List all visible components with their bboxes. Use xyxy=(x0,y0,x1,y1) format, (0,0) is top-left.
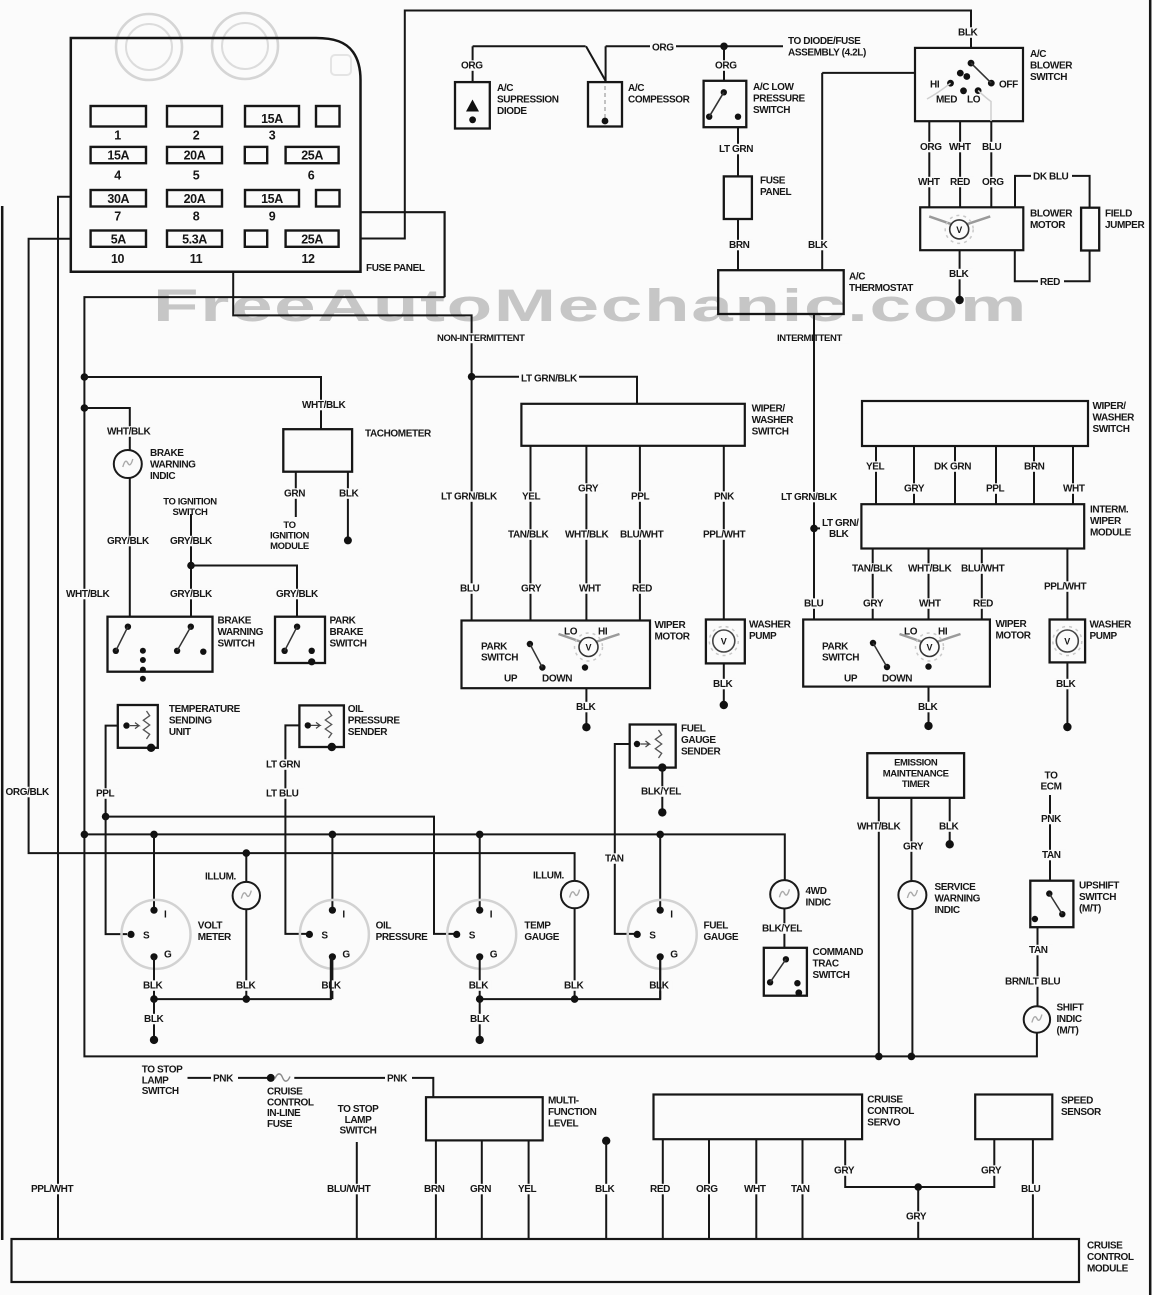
park brake sw contact 3 xyxy=(309,648,315,654)
junction I-bus temp xyxy=(476,831,484,839)
wire TAN servo out xyxy=(802,1139,804,1239)
wire BLU/WHT stop lamp to module xyxy=(356,1142,358,1239)
cruise control servo box xyxy=(654,1095,863,1140)
wire ORG drop to diode xyxy=(472,46,474,82)
svg-text:LT GRN/BLK: LT GRN/BLK xyxy=(781,492,838,503)
svg-text:LO: LO xyxy=(967,95,981,106)
svg-text:CRUISE: CRUISE xyxy=(867,1095,903,1106)
svg-text:WIPER: WIPER xyxy=(655,620,687,631)
svg-text:10: 10 xyxy=(111,252,125,266)
label PPL/WHT (right) xyxy=(1042,581,1087,592)
fuse panel outer box top/right edge xyxy=(361,212,445,297)
svg-text:9: 9 xyxy=(269,210,276,224)
terminal dot right motor BLK xyxy=(924,722,932,730)
svg-text:NON-INTERMITTENT: NON-INTERMITTENT xyxy=(437,333,525,344)
wire YEL/GRY left sw out1 xyxy=(530,446,532,621)
right park sw blade xyxy=(873,643,887,667)
upshift contact 1 xyxy=(1046,890,1052,896)
wiper motor box (left) xyxy=(462,621,651,689)
junction intermittent to module xyxy=(810,525,818,533)
terminal dot right bus xyxy=(476,1036,484,1044)
wire BLK tach out xyxy=(347,472,349,541)
svg-text:5: 5 xyxy=(193,169,200,183)
fuse slot 3 xyxy=(245,106,299,127)
fuse slot 8 xyxy=(286,147,339,163)
label WHT/BLK (left mid) xyxy=(563,529,609,540)
fuse slot 14 xyxy=(167,231,222,247)
svg-text:RED: RED xyxy=(973,599,993,610)
wire right switch to interm module 1 xyxy=(875,446,877,504)
svg-text:SWITCH: SWITCH xyxy=(813,970,850,981)
cruise control module box xyxy=(12,1239,1080,1282)
junction I-bus oil xyxy=(329,831,337,839)
svg-text:V: V xyxy=(721,637,727,647)
svg-text:COMPESSOR: COMPESSOR xyxy=(628,94,691,105)
wire GRY/BLK from ignition switch xyxy=(190,514,192,617)
svg-text:ILLUM.: ILLUM. xyxy=(533,871,565,882)
svg-text:GRY: GRY xyxy=(903,842,924,853)
label GRY (speed sensor) xyxy=(979,1165,1006,1176)
svg-text:OIL: OIL xyxy=(348,704,364,715)
command trac contact 3 xyxy=(794,980,800,986)
wire GRY timer to service lamp xyxy=(910,798,912,881)
temp sender resistor xyxy=(143,711,149,739)
wire GRY/WHT left sw out2 xyxy=(585,446,587,621)
label BRN/LT BLU xyxy=(1003,976,1064,987)
svg-text:YEL: YEL xyxy=(522,492,541,503)
label BRN xyxy=(727,240,753,251)
svg-text:BRAKE: BRAKE xyxy=(218,616,252,627)
wire GRY/BLK indic to brake warning switch xyxy=(129,478,131,617)
svg-text:2: 2 xyxy=(193,129,200,143)
svg-text:PRESSURE: PRESSURE xyxy=(753,93,806,104)
fuse slot 4 xyxy=(316,106,340,127)
svg-text:BLOWER: BLOWER xyxy=(1030,209,1073,220)
svg-text:RED: RED xyxy=(950,177,970,188)
svg-text:TO: TO xyxy=(283,520,295,531)
fuse slot 16 xyxy=(286,231,339,247)
svg-text:PNK: PNK xyxy=(213,1074,234,1085)
label TAN (upshift upper) xyxy=(1040,850,1066,861)
svg-text:PNK: PNK xyxy=(387,1074,408,1085)
svg-text:SWITCH: SWITCH xyxy=(218,638,255,649)
wire WHT/BLK timer to bus xyxy=(878,798,880,1057)
svg-text:MOTOR: MOTOR xyxy=(996,630,1032,641)
wire right switch to interm module 3 xyxy=(954,446,956,504)
fuse slot 7 xyxy=(245,147,267,163)
wire upshift to shift indic xyxy=(1037,927,1039,1006)
svg-text:HI: HI xyxy=(930,80,940,91)
junction non-intermittent branch xyxy=(468,373,476,381)
label RED (left r3) xyxy=(630,583,656,594)
label GRY/BLK (ign leg upper) xyxy=(168,536,214,547)
label GRY (module in) xyxy=(904,1211,931,1222)
label PNK (inline fuse left) xyxy=(211,1073,238,1084)
temperature sending unit box xyxy=(118,705,158,748)
svg-text:LAMP: LAMP xyxy=(142,1075,169,1086)
wire BLK left wiper motor ground xyxy=(585,688,587,727)
label BLK (left motor) xyxy=(574,702,599,713)
wiper washer switch box (right) xyxy=(862,401,1088,446)
svg-text:TAN: TAN xyxy=(1042,850,1061,861)
wire GRN tach out xyxy=(295,472,297,517)
wire RED bottom bracket left xyxy=(1015,250,1038,281)
temp sender arrow xyxy=(130,723,139,729)
svg-text:ORG: ORG xyxy=(461,61,483,72)
svg-text:FUSE: FUSE xyxy=(267,1119,293,1130)
svg-text:TAN: TAN xyxy=(1029,945,1048,956)
terminal dot left pump BLK xyxy=(720,701,728,709)
wire BLU/WHT module out3 xyxy=(981,549,983,620)
label BLU (right wiper motor in) xyxy=(802,598,827,609)
svg-text:BLK: BLK xyxy=(236,981,257,992)
label BLK (timer) xyxy=(937,821,962,832)
wire PPL to temp gauge S xyxy=(106,817,454,934)
svg-text:TACHOMETER: TACHOMETER xyxy=(365,429,432,440)
label WHT (left r3) xyxy=(577,583,605,594)
wire RED bottom bracket right xyxy=(1064,251,1090,282)
svg-text:5A: 5A xyxy=(111,232,127,246)
wire INTERMITTENT feed xyxy=(813,314,815,620)
svg-text:ILLUM.: ILLUM. xyxy=(205,872,237,883)
wire ORG rail right segment xyxy=(606,45,783,47)
svg-text:SWITCH: SWITCH xyxy=(753,105,790,116)
wire GRN multifunction out xyxy=(481,1140,483,1239)
wire right switch to interm module 5 xyxy=(1033,446,1035,504)
svg-text:A/C LOW: A/C LOW xyxy=(753,82,794,93)
wire BLK left washer pump ground xyxy=(723,663,725,705)
label BRN (bottom) xyxy=(422,1184,449,1195)
svg-text:TO STOP: TO STOP xyxy=(338,1104,379,1115)
svg-text:SENDING: SENDING xyxy=(169,715,212,726)
label LT GRN xyxy=(717,144,757,155)
label ORG (sw out 1) xyxy=(918,142,944,153)
wire BRN fuse to thermostat xyxy=(737,219,739,270)
svg-text:A/C: A/C xyxy=(497,83,513,94)
label BLK (right bus dropper) xyxy=(468,1014,493,1025)
svg-text:INDIC: INDIC xyxy=(1057,1014,1082,1025)
svg-text:G: G xyxy=(490,949,498,960)
wire LT GRN low pressure to fuse xyxy=(737,127,739,176)
svg-text:ORG: ORG xyxy=(920,142,942,153)
park brake sw contact 4 xyxy=(308,658,315,665)
washer pump symbol (left) xyxy=(713,630,735,652)
svg-text:IGNITION: IGNITION xyxy=(270,530,310,541)
svg-text:G: G xyxy=(164,949,172,960)
svg-text:BLK: BLK xyxy=(339,489,360,500)
svg-text:IN-LINE: IN-LINE xyxy=(267,1108,301,1119)
wire PPL/WHT from fuse panel to cruise module xyxy=(58,197,71,1239)
svg-text:SUPRESSION: SUPRESSION xyxy=(497,94,559,105)
diode symbol xyxy=(466,100,479,112)
junction WHT/BLK to illumination I-bus xyxy=(81,831,89,839)
svg-text:3: 3 xyxy=(269,129,276,143)
svg-text:LT GRN/BLK: LT GRN/BLK xyxy=(521,374,578,385)
wire PNK segment b xyxy=(294,1078,433,1097)
svg-text:I: I xyxy=(342,909,345,920)
svg-text:GRY: GRY xyxy=(521,584,542,595)
label ORG/BLK xyxy=(4,787,51,798)
wire BLK bus right dropper xyxy=(479,999,481,1040)
svg-text:EMISSION: EMISSION xyxy=(894,758,938,769)
wire G dropper TEMP GAUGE xyxy=(479,957,481,999)
svg-text:WARNING: WARNING xyxy=(935,893,981,904)
label BLK (VOLT METER G) xyxy=(141,980,166,991)
label WHT (sw out 2) xyxy=(947,142,975,153)
wire I dropper temp xyxy=(479,834,481,909)
svg-text:CONTROL: CONTROL xyxy=(1087,1252,1134,1263)
label BRN (right) xyxy=(1022,461,1049,472)
wire RED servo out xyxy=(662,1139,664,1239)
blower switch contact b xyxy=(963,73,970,80)
svg-text:6: 6 xyxy=(308,169,315,183)
svg-text:YEL: YEL xyxy=(866,462,885,473)
svg-text:BLK: BLK xyxy=(949,269,970,280)
svg-text:ASSEMBLY (4.2L): ASSEMBLY (4.2L) xyxy=(788,48,866,59)
A/C compressor box xyxy=(588,82,622,126)
svg-text:20A: 20A xyxy=(184,192,206,206)
blower motor symbol xyxy=(929,216,990,224)
label GRY (right r3) xyxy=(861,598,888,609)
label BLK (blower switch feed) xyxy=(956,27,980,38)
svg-text:BLK: BLK xyxy=(958,28,979,39)
svg-text:CRUISE: CRUISE xyxy=(1087,1241,1123,1252)
wire GRY servo/speed sensor link xyxy=(845,1139,994,1187)
svg-text:BRN: BRN xyxy=(729,240,750,251)
wire GRY/BLK branch to park brake switch xyxy=(191,566,297,617)
brake warning switch box xyxy=(108,617,213,672)
wire LT GRN/BLK to interm module xyxy=(814,527,861,529)
label PPL xyxy=(94,788,119,799)
label BLU/WHT (left) xyxy=(618,529,663,540)
wire ORG/BLK from fuse panel to illum bus xyxy=(29,239,575,881)
svg-text:(M/T): (M/T) xyxy=(1079,903,1101,914)
svg-text:LAMP: LAMP xyxy=(345,1115,372,1126)
wire BRN multifunction out xyxy=(435,1140,437,1239)
TEMP GAUGE gauge xyxy=(447,900,516,969)
svg-text:5.3A: 5.3A xyxy=(182,232,207,246)
label WHT (right r1) xyxy=(1061,483,1089,494)
svg-text:MODULE: MODULE xyxy=(1087,1263,1129,1274)
wire ORG drop to low pressure switch xyxy=(723,46,725,81)
wire ORG rail left segment xyxy=(473,45,586,47)
svg-text:WIPER: WIPER xyxy=(996,619,1028,630)
svg-text:SWITCH: SWITCH xyxy=(330,638,367,649)
label BLK (left illum) xyxy=(234,980,259,991)
svg-text:SERVICE: SERVICE xyxy=(935,882,977,893)
fuse slot 11 xyxy=(245,190,299,207)
svg-text:HI: HI xyxy=(598,627,608,638)
label INTERMITTENT xyxy=(775,333,849,343)
wire PNK segment a xyxy=(188,1077,271,1079)
tachometer box xyxy=(283,429,352,472)
junction GRY link xyxy=(914,1183,922,1191)
svg-text:BRN: BRN xyxy=(1024,462,1045,473)
right park sw contact 2 xyxy=(884,664,890,670)
wire left illum lamp top xyxy=(245,853,247,882)
wire BLK right wiper motor ground xyxy=(928,687,930,726)
brake warning sw linkage dot 4 xyxy=(140,676,146,682)
terminal dot right pump BLK xyxy=(1063,723,1071,731)
svg-text:30A: 30A xyxy=(107,192,129,206)
wire TAN fuel sender to fuel gauge S xyxy=(615,744,634,934)
shift indic lamp xyxy=(1024,1006,1050,1032)
terminal dot left motor BLK xyxy=(582,723,590,731)
brake warning sw contact 5 xyxy=(200,649,206,655)
svg-text:GRY: GRY xyxy=(904,484,925,495)
multi-function level box xyxy=(426,1097,543,1140)
illum lamp right xyxy=(561,881,588,908)
junction WHT/BLK to tach bus xyxy=(81,373,89,381)
wire BLK blower switch to thermostat xyxy=(822,73,915,270)
left park sw blade xyxy=(530,644,543,668)
svg-text:DIODE: DIODE xyxy=(497,106,527,117)
svg-text:SWITCH: SWITCH xyxy=(822,652,859,663)
svg-text:SERVO: SERVO xyxy=(867,1117,900,1128)
terminal dot tach BLK xyxy=(344,536,352,544)
wire NON-INTERMITTENT feed xyxy=(233,272,471,621)
svg-text:WHT/BLK: WHT/BLK xyxy=(857,822,901,833)
label RED (bottom) xyxy=(648,1184,674,1195)
wire diagonal to compressor xyxy=(586,46,606,81)
command trac contact 4 xyxy=(795,989,802,996)
svg-text:INDIC: INDIC xyxy=(935,905,960,916)
wire right switch to interm module 6 xyxy=(1072,446,1074,504)
label LT GRN/ BLK (2 line) xyxy=(820,517,861,538)
svg-text:V: V xyxy=(585,643,591,653)
label RED (motor in 2) xyxy=(948,177,974,188)
label YEL (left) xyxy=(520,491,545,502)
label YEL (right) xyxy=(864,461,889,472)
cruise in-line fuse symbol xyxy=(275,1074,290,1081)
svg-text:BLOWER: BLOWER xyxy=(1030,60,1073,71)
svg-text:INTERM.: INTERM. xyxy=(1090,505,1129,516)
svg-text:VOLT: VOLT xyxy=(198,921,223,932)
svg-text:BLU: BLU xyxy=(982,142,1002,153)
svg-text:ORG: ORG xyxy=(652,43,674,54)
svg-text:BLK: BLK xyxy=(595,1184,616,1195)
label BLK (OIL PRESSURE G) xyxy=(319,980,344,991)
svg-text:GRY/BLK: GRY/BLK xyxy=(276,589,319,600)
diode terminal dot xyxy=(469,116,476,123)
svg-text:RED: RED xyxy=(650,1184,670,1195)
svg-text:PPL: PPL xyxy=(986,484,1005,495)
label YEL (bottom) xyxy=(516,1184,541,1195)
wire G dropper OIL PRESSURE xyxy=(331,957,333,999)
low pressure switch right contact xyxy=(735,114,741,120)
label WHT (right r3) xyxy=(917,598,945,609)
svg-text:RED: RED xyxy=(1040,277,1060,288)
temp sender bottom terminal xyxy=(147,744,155,752)
svg-text:CRUISE: CRUISE xyxy=(267,1087,303,1098)
label GRY (servo) xyxy=(832,1165,859,1176)
upshift contact 3 xyxy=(1032,916,1038,922)
svg-text:COMMAND: COMMAND xyxy=(813,947,864,958)
compressor dashed element xyxy=(604,86,606,118)
svg-text:PPL: PPL xyxy=(631,492,650,503)
svg-text:SWITCH: SWITCH xyxy=(481,652,518,663)
svg-text:WHT: WHT xyxy=(949,142,971,153)
fuel gauge sender box xyxy=(630,725,676,768)
svg-text:SWITCH: SWITCH xyxy=(1079,892,1116,903)
junction illum bus left lamp xyxy=(243,849,251,857)
svg-text:ORG: ORG xyxy=(982,177,1004,188)
park brake sw contact 1 xyxy=(294,624,300,630)
oil sender contact xyxy=(305,722,311,728)
junction bus service lamp xyxy=(908,1053,916,1061)
label WHT/BLK (brake indic) xyxy=(105,426,151,437)
brake warning sw contact 3 xyxy=(188,624,194,630)
wire PPL temp sender to gauges xyxy=(106,726,118,817)
svg-text:MAINTENANCE: MAINTENANCE xyxy=(883,768,949,779)
wire I dropper fuel xyxy=(659,834,661,909)
svg-text:PPL/WHT: PPL/WHT xyxy=(703,530,745,541)
svg-text:GRY: GRY xyxy=(863,599,884,610)
svg-text:BLK: BLK xyxy=(469,981,490,992)
label TAN (fuel) xyxy=(603,853,629,864)
right park sw contact 1 xyxy=(870,640,876,646)
svg-text:UP: UP xyxy=(844,674,858,685)
label PPL/WHT (bottom left) xyxy=(29,1184,77,1195)
svg-text:MOTOR: MOTOR xyxy=(1030,220,1066,231)
fuse slot 6 xyxy=(167,147,222,163)
wire I dropper volt xyxy=(153,834,155,909)
svg-text:MED: MED xyxy=(936,95,957,106)
svg-text:15A: 15A xyxy=(261,112,283,126)
label WHT/BLK (tach) xyxy=(300,400,346,411)
junction ignition GRY/BLK xyxy=(187,562,195,570)
svg-text:GRN: GRN xyxy=(284,489,305,500)
junction I-bus fuel xyxy=(656,831,664,839)
svg-text:FUSE PANEL: FUSE PANEL xyxy=(366,263,425,274)
label GRN (bottom) xyxy=(468,1184,496,1195)
svg-text:BRAKE: BRAKE xyxy=(150,448,184,459)
svg-text:DOWN: DOWN xyxy=(882,674,912,685)
svg-text:BLK: BLK xyxy=(829,529,850,540)
wire top rail fuse panel to blower switch xyxy=(361,11,972,239)
svg-text:BLK: BLK xyxy=(918,702,939,713)
brake warning sw contact 2 xyxy=(113,648,119,654)
wire PPL/WHT module out4 to pump xyxy=(1066,549,1068,620)
svg-text:PRESSURE: PRESSURE xyxy=(348,715,401,726)
svg-text:PNK: PNK xyxy=(1041,814,1062,825)
junction bus WHT/BLK xyxy=(875,1053,883,1061)
label ORG (above diode) xyxy=(459,60,485,71)
svg-text:PUMP: PUMP xyxy=(1090,631,1118,642)
svg-text:SWITCH: SWITCH xyxy=(752,426,789,437)
wire WHT/BLK module out2 xyxy=(928,549,930,620)
svg-text:INTERMITTENT: INTERMITTENT xyxy=(777,333,842,344)
OIL PRESSURE gauge xyxy=(300,900,369,969)
label GRY/BLK (indic leg) xyxy=(105,536,151,547)
svg-text:PPL/WHT: PPL/WHT xyxy=(31,1184,73,1195)
svg-text:BLK: BLK xyxy=(576,702,597,713)
label WHT/BLK (left column) xyxy=(64,589,110,600)
svg-text:MODULE: MODULE xyxy=(1090,527,1132,538)
brake warning sw contact 4 xyxy=(174,648,180,654)
svg-text:DOWN: DOWN xyxy=(542,674,572,685)
wire LT GRN/LT BLU oil sender to oil gauge S xyxy=(285,725,306,934)
svg-text:7: 7 xyxy=(114,210,121,224)
svg-text:BLU: BLU xyxy=(460,584,480,595)
svg-text:PANEL: PANEL xyxy=(760,187,791,198)
command trac contact 1 xyxy=(783,956,789,962)
fuel sender contact xyxy=(634,741,640,747)
A/C supression diode box xyxy=(455,82,490,128)
wire ORG servo out xyxy=(708,1139,710,1239)
fuse slot 1 xyxy=(91,106,146,127)
svg-text:PNK: PNK xyxy=(714,492,735,503)
